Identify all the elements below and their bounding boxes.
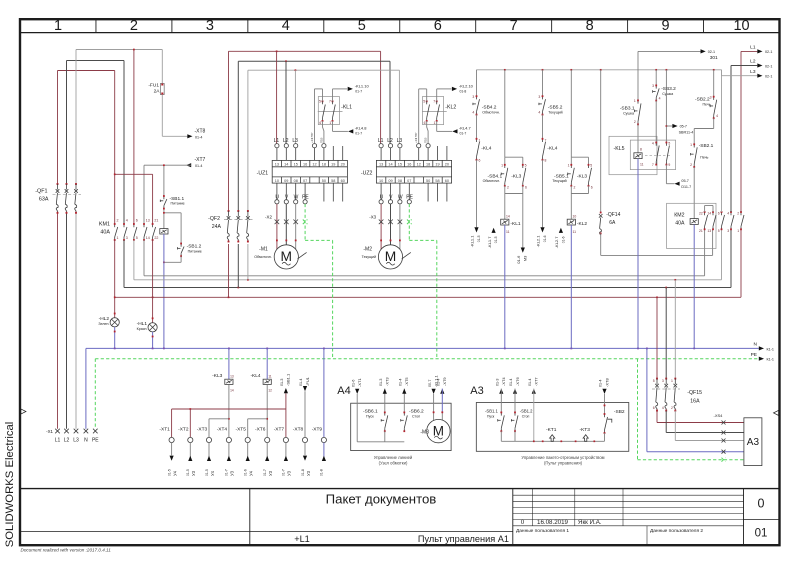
- wire N drop into A3 unit: [646, 348, 648, 451]
- wire L1 phase riser from terminal X1 through QF1 up to top bus: [57, 71, 59, 185]
- svg-text:4: 4: [472, 110, 474, 114]
- svg-text:01-8: 01-8: [301, 469, 305, 476]
- header row line: [20, 32, 780, 34]
- svg-text:0: 0: [758, 497, 765, 511]
- reference arrow SB1.1 01-3: [285, 393, 287, 409]
- svg-text:Пакет документов: Пакет документов: [326, 492, 437, 507]
- svg-text:2: 2: [574, 186, 576, 190]
- control feed bus gray horizontal: [477, 69, 722, 71]
- svg-text:-KL1.7: -KL1.7: [487, 236, 492, 249]
- wire KL5 coil to N bus: [637, 159, 639, 349]
- svg-text:1: 1: [54, 18, 62, 34]
- -KL1 contact poles: [322, 100, 324, 102]
- pushbutton SB1.2 Питание bypass branch: [164, 212, 181, 214]
- svg-text:Текущий: Текущий: [552, 179, 566, 183]
- svg-text:1: 1: [501, 163, 503, 167]
- wire outgoing L1 arrow 02-1: [740, 51, 742, 212]
- svg-text:16: 16: [303, 162, 307, 166]
- motor -M1 Обмоточн.: [274, 245, 298, 269]
- svg-text:-XT8: -XT8: [604, 378, 609, 387]
- wire UZ1 L3 feed: [294, 70, 296, 143]
- circuit breaker QF15 16A three poles: [656, 297, 658, 378]
- svg-text:5: 5: [423, 100, 425, 104]
- wire PE riser to X1 green dashed: [94, 359, 96, 429]
- svg-text:Красн.: Красн.: [137, 327, 148, 331]
- wire HL2 to N bus: [114, 327, 116, 349]
- svg-text:7: 7: [652, 163, 654, 167]
- svg-text:-XT6: -XT6: [515, 377, 520, 386]
- svg-text:У4: У4: [210, 470, 215, 476]
- timer contact KT1: [550, 435, 555, 442]
- svg-text:4: 4: [282, 18, 290, 34]
- user data cells: [646, 526, 648, 545]
- svg-text:-KL3: -KL3: [212, 373, 222, 379]
- svg-text:-KL2: -KL2: [445, 104, 456, 110]
- svg-text:-М2: -М2: [363, 247, 372, 253]
- svg-text:13: 13: [379, 162, 383, 166]
- svg-text:3: 3: [727, 229, 729, 233]
- svg-text:-XT9: -XT9: [312, 426, 323, 432]
- wire A4 common rail from XT1: [356, 394, 358, 442]
- svg-text:-SB1.1: -SB1.1: [485, 409, 498, 414]
- svg-text:5: 5: [590, 163, 592, 167]
- svg-text:01-6: 01-6: [543, 235, 547, 242]
- wire L3 phase riser through QF1: [75, 50, 77, 185]
- svg-text:7: 7: [510, 18, 518, 34]
- svg-text:-XT4: -XT4: [501, 377, 506, 386]
- svg-text:-XT9: -XT9: [442, 377, 447, 386]
- svg-text:5: 5: [653, 379, 655, 383]
- svg-text:6: 6: [434, 18, 442, 34]
- svg-text:-XT3: -XT3: [197, 426, 208, 432]
- svg-text:0: 0: [521, 519, 525, 526]
- svg-text:08: 08: [398, 179, 402, 183]
- -UZ2 stub wires terminals 50 58 60 bottom: [427, 183, 429, 201]
- revision table rows: [513, 494, 744, 496]
- svg-text:-SB2.1: -SB2.1: [699, 143, 714, 149]
- svg-text:60: 60: [341, 179, 345, 183]
- svg-text:Обмоточн.: Обмоточн.: [482, 111, 500, 115]
- svg-text:К1-1: К1-1: [767, 358, 774, 362]
- svg-text:14: 14: [284, 162, 288, 166]
- svg-text:-XT7: -XT7: [534, 377, 539, 386]
- svg-text:4: 4: [727, 212, 729, 216]
- device box A3 unit: [744, 418, 762, 466]
- svg-text:У3: У3: [230, 470, 235, 476]
- svg-text:-KL2.1: -KL2.1: [536, 235, 541, 248]
- svg-text:L3: L3: [292, 138, 298, 144]
- svg-text:13: 13: [230, 375, 234, 379]
- start button -SB4.1 and latch contact -KL3 pair: [504, 70, 506, 157]
- svg-text:-SB2: -SB2: [614, 409, 625, 415]
- frequency drive -UZ1 terminal block: [272, 160, 347, 183]
- svg-text:01-4: 01-4: [509, 379, 513, 386]
- svg-text:1: 1: [434, 121, 436, 125]
- svg-text:05-7: 05-7: [680, 125, 687, 129]
- svg-text:У3: У3: [287, 470, 292, 476]
- svg-text:09: 09: [284, 179, 288, 183]
- svg-text:(Узел обмотки): (Узел обмотки): [379, 460, 408, 465]
- svg-text:01-5: 01-5: [477, 235, 481, 242]
- svg-text:L2: L2: [283, 138, 289, 144]
- pushbutton -SB4.2 Обмоточн.: [476, 70, 478, 96]
- reference arrow XT1 into A4: [355, 389, 359, 394]
- svg-text:L2: L2: [750, 59, 756, 65]
- svg-text:Обмоточн.: Обмоточн.: [483, 179, 501, 183]
- -UZ2 stub wires terminals 19 20 top: [437, 146, 439, 160]
- svg-text:-X3: -X3: [369, 214, 376, 219]
- svg-text:01: 01: [755, 528, 768, 540]
- wire -SB5.1 pair bottom rail: [570, 186, 572, 194]
- svg-text:-XT4: -XT4: [217, 426, 228, 432]
- svg-text:Сушка: Сушка: [623, 112, 634, 116]
- wire L1 top bus to KM1 pole 2: [58, 70, 115, 72]
- svg-text:Document realized with version: Document realized with version :2017.0.4…: [21, 548, 112, 553]
- wire KM2 aux 22-14 bridge: [704, 206, 706, 213]
- svg-text:Пуск: Пуск: [366, 415, 374, 419]
- N neutral bus blue horizontal: [86, 347, 759, 349]
- wire SB2.1 to KM2 coil: [693, 167, 695, 219]
- fuse FU1 2A: [161, 50, 163, 84]
- svg-text:-KL4: -KL4: [481, 146, 491, 152]
- svg-text:18: 18: [322, 162, 326, 166]
- svg-text:14: 14: [707, 212, 711, 216]
- motor -М2 Текущий: [378, 245, 402, 269]
- svg-text:6: 6: [653, 406, 655, 410]
- svg-text:Питание: Питание: [171, 202, 185, 206]
- svg-text:01-5: 01-5: [186, 469, 190, 476]
- motor -М2 earth tail: [402, 252, 411, 259]
- svg-text:У4: У4: [249, 470, 254, 476]
- -UZ1 stub wires terminals 19 20 top: [332, 146, 334, 160]
- svg-text:01-7: 01-7: [225, 469, 229, 476]
- svg-text:+3Ф 55Г: +3Ф 55Г: [310, 132, 314, 143]
- wire phase A output bus KM1 pin 5 to KM2 with QF2 and QF15 taps: [133, 240, 135, 280]
- svg-text:-KL3: -KL3: [577, 173, 587, 179]
- pushbutton SB2.2 Печь: [713, 70, 715, 97]
- svg-text:14: 14: [388, 162, 392, 166]
- svg-text:2: 2: [130, 18, 138, 34]
- pushbutton SB1.2 Стоп in A3: [513, 389, 517, 394]
- svg-text:5: 5: [319, 100, 321, 104]
- svg-text:6: 6: [319, 121, 321, 125]
- svg-text:16: 16: [407, 162, 411, 166]
- switch SB2 in A3: [602, 389, 606, 394]
- svg-text:L3: L3: [397, 138, 403, 144]
- svg-text:2: 2: [671, 406, 673, 410]
- relay contact block -KL2: [423, 97, 444, 125]
- svg-text:1: 1: [568, 163, 570, 167]
- contactor KM2 enclosure box: [667, 203, 716, 248]
- svg-text:2: 2: [690, 163, 692, 167]
- wire outgoing L2 arrow 02-1: [730, 66, 732, 213]
- wire KL3 coil to XT4 and XT3 jog: [228, 384, 230, 437]
- svg-text:-KL4: -KL4: [547, 146, 557, 152]
- svg-text:-QF15: -QF15: [687, 390, 702, 396]
- pushbutton SB3.1 Сушка: [637, 100, 639, 103]
- svg-text:-M1: -M1: [259, 247, 268, 253]
- svg-text:01-8: 01-8: [320, 469, 324, 476]
- svg-text:-UZ1: -UZ1: [257, 171, 269, 177]
- svg-text:-FU1: -FU1: [148, 83, 159, 89]
- wire FU1 output to XT8 reference arrow: [161, 95, 163, 137]
- wire QF14 output to KM2 pin 13: [600, 233, 602, 255]
- title block right cell divider: [743, 489, 745, 546]
- svg-text:-KL2.7: -KL2.7: [554, 236, 559, 249]
- pushbutton SB1.1 Пуск in A3: [499, 389, 503, 394]
- svg-text:01-4: 01-4: [195, 135, 202, 139]
- svg-text:01-7: 01-7: [460, 132, 467, 136]
- svg-text:Печь: Печь: [700, 155, 708, 159]
- svg-text:Пуск: Пуск: [487, 414, 495, 418]
- wire -KL2 coil to N bus: [570, 225, 572, 348]
- title block center-right divider: [512, 489, 514, 546]
- svg-text:60: 60: [445, 179, 449, 183]
- svg-text:-М3: -М3: [420, 429, 429, 435]
- svg-text:У4: У4: [172, 470, 177, 476]
- svg-text:-XT1: -XT1: [159, 426, 170, 432]
- svg-text:01-5: 01-5: [205, 469, 209, 476]
- svg-text:20: 20: [445, 162, 449, 166]
- svg-text:01-4: 01-4: [437, 379, 441, 386]
- svg-text:6А: 6А: [609, 220, 616, 226]
- circuit breaker QF14 6A control: [600, 70, 602, 213]
- svg-text:1: 1: [737, 229, 739, 233]
- svg-text:19: 19: [331, 162, 335, 166]
- svg-text:У3: У3: [191, 470, 196, 476]
- svg-text:10: 10: [573, 215, 577, 219]
- wire -SB4.2 chain down to reference arrow: [476, 160, 478, 228]
- svg-text:-XT2: -XT2: [178, 426, 189, 432]
- svg-text:01-6: 01-6: [561, 236, 565, 243]
- wire -KL1 right pole top to reference arrow: [332, 89, 334, 101]
- svg-text:01-8: 01-8: [460, 89, 467, 93]
- svg-text:01-3: 01-3: [379, 379, 383, 386]
- svg-text:Питание: Питание: [188, 249, 202, 253]
- svg-text:-XT8: -XT8: [195, 128, 206, 134]
- svg-text:-KL5: -KL5: [614, 146, 625, 152]
- wire PE drop into A3 unit green dashed: [637, 359, 639, 460]
- svg-text:N: N: [754, 342, 758, 348]
- wire 301 feed to SB3.1 with reference arrow: [638, 50, 701, 52]
- svg-text:16.08.2019: 16.08.2019: [537, 519, 569, 526]
- svg-text:18: 18: [426, 162, 430, 166]
- svg-text:13: 13: [275, 162, 279, 166]
- svg-text:11: 11: [506, 230, 510, 234]
- svg-text:01-6: 01-6: [244, 469, 248, 476]
- circuit breaker QF1 63A three poles: [57, 183, 59, 185]
- svg-text:-QF14: -QF14: [606, 212, 620, 218]
- lamp HL2 green indicator: [110, 318, 119, 327]
- svg-text:1: 1: [479, 139, 481, 143]
- svg-text:19: 19: [435, 162, 439, 166]
- -UZ2 output terminals U V W PE: [380, 183, 382, 200]
- svg-text:3: 3: [472, 95, 474, 99]
- svg-text:L1: L1: [274, 138, 280, 144]
- pushbutton SB6.2 Стоп in A4: [403, 389, 405, 413]
- svg-text:L1: L1: [55, 438, 61, 444]
- relay contact block -KL1: [318, 97, 339, 125]
- svg-text:50: 50: [426, 179, 430, 183]
- wire N branch to XT9: [323, 348, 325, 437]
- relay contact -KL4 in -SB4.2 chain: [476, 115, 478, 139]
- wire UZ1 L2 feed: [285, 61, 287, 143]
- svg-text:11: 11: [268, 375, 272, 379]
- svg-text:02-1: 02-1: [765, 50, 772, 54]
- svg-text:24А: 24А: [212, 224, 222, 230]
- svg-text:02-1: 02-1: [708, 50, 715, 54]
- svg-text:-KL1: -KL1: [510, 221, 520, 227]
- relay contact -KL4 in -SB5.2 chain: [542, 115, 544, 139]
- svg-text:7: 7: [433, 100, 435, 104]
- svg-text:12: 12: [417, 162, 421, 166]
- svg-text:301: 301: [710, 55, 718, 61]
- svg-text:L2: L2: [387, 138, 393, 144]
- svg-text:7: 7: [545, 139, 547, 143]
- wire -SB4.1 pair bottom rail: [504, 186, 506, 194]
- svg-text:-XS4: -XS4: [714, 413, 724, 418]
- svg-text:6: 6: [525, 186, 527, 190]
- PE wire -X3 green dashed to PE bus: [408, 204, 410, 241]
- revision table column lines: [532, 489, 534, 526]
- svg-text:58: 58: [331, 179, 335, 183]
- svg-text:10: 10: [733, 18, 749, 34]
- -UZ1 output terminals U V W PE: [276, 183, 278, 200]
- svg-text:08: 08: [294, 179, 298, 183]
- svg-text:01-5: 01-5: [494, 236, 498, 243]
- svg-text:SOLIDWORKS Electrical: SOLIDWORKS Electrical: [4, 422, 16, 548]
- svg-text:-XT6: -XT6: [255, 426, 266, 432]
- pushbutton -SB5.2 Текущий: [542, 70, 544, 96]
- svg-text:-XT8: -XT8: [293, 426, 304, 432]
- svg-text:01-4: 01-4: [599, 380, 603, 387]
- svg-text:Текущий: Текущий: [548, 111, 562, 115]
- svg-text:5: 5: [668, 142, 670, 146]
- relay contact KL5 pole b with SBR reference: [665, 70, 667, 143]
- wire latch branch down to M3 reference arrow: [522, 194, 524, 248]
- wire N riser to X1: [85, 348, 87, 428]
- svg-text:-KL1.10: -KL1.10: [355, 83, 370, 88]
- svg-text:50: 50: [322, 179, 326, 183]
- svg-text:14: 14: [506, 215, 510, 219]
- svg-text:6: 6: [591, 186, 593, 190]
- svg-text:Якк И.А.: Якк И.А.: [578, 519, 602, 526]
- header column separators and numbers: [95, 19, 97, 32]
- svg-text:3: 3: [710, 95, 712, 99]
- svg-text:6: 6: [718, 212, 720, 216]
- svg-text:Текущий: Текущий: [362, 255, 376, 259]
- svg-text:00-7: 00-7: [428, 380, 432, 387]
- svg-text:6: 6: [136, 219, 138, 223]
- wire outgoing L3 arrow 02-1: [721, 70, 723, 76]
- svg-text:А3: А3: [747, 437, 760, 448]
- svg-text:-FU1: -FU1: [305, 376, 310, 386]
- wire HL1 to N bus: [152, 332, 154, 349]
- svg-text:14: 14: [146, 236, 150, 240]
- relay KL5 coil: [637, 124, 639, 152]
- svg-text:Пульт управления А1: Пульт управления А1: [418, 534, 509, 544]
- svg-text:07: 07: [303, 179, 307, 183]
- svg-text:Данные пользователя 1: Данные пользователя 1: [516, 528, 569, 534]
- svg-text:-XT3: -XT3: [385, 377, 390, 386]
- frequency drive -UZ2 terminal block: [376, 160, 451, 183]
- -UZ1 terminals 12 18 circles: [312, 144, 316, 148]
- svg-text:01-3: 01-3: [280, 379, 284, 386]
- svg-text:01-4: 01-4: [195, 164, 202, 168]
- svg-text:-KL2: -KL2: [577, 221, 587, 227]
- wire KM1 pin 14 aux output long bus to KM2 pin 21: [143, 240, 145, 276]
- svg-text:-KL4: -KL4: [250, 373, 260, 379]
- svg-text:6: 6: [424, 121, 426, 125]
- wire KM2 coil to N bus: [693, 224, 695, 348]
- wire -KL1 left pole bottom to drive terminal 18: [323, 121, 324, 143]
- svg-text:15: 15: [398, 162, 402, 166]
- svg-text:L3: L3: [73, 438, 79, 444]
- svg-text:У3: У3: [268, 470, 273, 476]
- svg-text:+3Ф 55Г: +3Ф 55Г: [414, 132, 418, 143]
- svg-text:05-7: 05-7: [681, 179, 688, 183]
- svg-text:PE: PE: [751, 352, 757, 358]
- svg-text:02-1: 02-1: [765, 64, 772, 68]
- svg-text:1: 1: [329, 121, 331, 125]
- svg-text:A3: A3: [470, 385, 483, 397]
- wire UZ1 L1 feed: [276, 51, 278, 143]
- wire XT7 reference to KM1 aux pin 13 and SB1.1: [186, 163, 191, 167]
- svg-text:4: 4: [662, 406, 664, 410]
- svg-text:-SB1.1: -SB1.1: [286, 373, 291, 386]
- svg-text:01-7: 01-7: [263, 469, 267, 476]
- svg-text:2: 2: [507, 186, 509, 190]
- svg-text:21: 21: [699, 229, 703, 233]
- svg-text:7: 7: [329, 100, 331, 104]
- svg-text:01-6: 01-6: [516, 255, 521, 264]
- svg-text:8: 8: [545, 159, 547, 163]
- -UZ2 terminals 12 18 circles: [417, 144, 421, 148]
- reference arrow -KL1.7: [492, 228, 496, 233]
- svg-text:3: 3: [652, 84, 654, 88]
- svg-text:40А: 40А: [675, 220, 685, 226]
- svg-text:14: 14: [230, 389, 234, 393]
- svg-text:12: 12: [268, 389, 272, 393]
- svg-text:16А: 16А: [690, 398, 700, 404]
- -UZ1 stub wires terminals 50 58 60 bottom: [323, 183, 325, 201]
- svg-text:1: 1: [690, 143, 692, 147]
- svg-text:-KL4.7: -KL4.7: [459, 125, 472, 130]
- frame arrow marker right: [774, 410, 779, 415]
- svg-text:5: 5: [136, 236, 138, 240]
- svg-text:(Пульт управления): (Пульт управления): [544, 460, 583, 465]
- wire L2 phase riser through QF1: [66, 61, 68, 185]
- start button -SB5.1 and latch contact -KL3 pair: [570, 70, 572, 157]
- svg-text:-KT3: -KT3: [580, 427, 591, 433]
- svg-text:3: 3: [662, 379, 664, 383]
- svg-text:-KL1: -KL1: [341, 104, 352, 110]
- svg-text:KM1: KM1: [99, 222, 110, 228]
- svg-text:4: 4: [659, 96, 661, 100]
- wire QF2 L1 riser and top bus to UZ2: [228, 51, 230, 211]
- wire SB2.2 to SB2.1 jog: [713, 118, 715, 128]
- svg-text:У3: У3: [306, 470, 311, 476]
- svg-text:6: 6: [479, 159, 481, 163]
- A3 bottom rail: [501, 440, 604, 442]
- svg-text:22: 22: [154, 236, 158, 240]
- frame arrow marker left: [21, 409, 26, 414]
- title block left divider: [249, 489, 251, 546]
- svg-text:Сушка: Сушка: [662, 92, 673, 96]
- lamp HL1 red indicator: [152, 240, 154, 323]
- svg-text:-QF1: -QF1: [35, 188, 47, 194]
- svg-text:-X2: -X2: [265, 214, 272, 219]
